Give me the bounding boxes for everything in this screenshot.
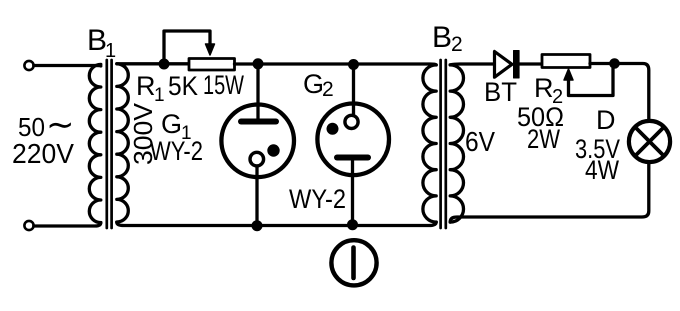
svg-text:G: G (161, 109, 182, 139)
meter lamp filament bar (351, 248, 356, 279)
wire: R2 to right corner and down to lamp (590, 64, 649, 120)
terminal top-left (24, 61, 33, 70)
tube G1 cathode dot (268, 145, 279, 156)
tube G2 envelope (317, 104, 389, 176)
arrowhead of R1 wiper (206, 44, 215, 55)
tube G1 cathode lead (255, 166, 258, 226)
svg-text:1: 1 (105, 40, 116, 62)
svg-text:WY-2: WY-2 (289, 184, 346, 214)
node junction G2 top (349, 60, 359, 70)
transformer B1 primary winding (89, 64, 101, 222)
lamp D envelope (629, 121, 670, 162)
arrowhead of R2 wiper (564, 69, 573, 80)
tube G2 dot electrode (327, 123, 338, 134)
wire: diode to R2 (519, 62, 542, 65)
node junction G1 bottom (252, 221, 262, 231)
tube G2 top lead (352, 64, 355, 115)
tube G1 cathode circle (250, 152, 264, 166)
tube G2 bottom bar (337, 155, 368, 161)
transformer B2 primary winding (423, 65, 436, 222)
resistor R2 body (542, 55, 590, 68)
svg-text:6V: 6V (465, 126, 495, 157)
transformer B2 core (441, 60, 446, 228)
node junction R1 left (159, 59, 169, 69)
svg-text:R: R (136, 71, 156, 101)
svg-text:4W: 4W (585, 155, 619, 185)
tube G2 bottom lead (351, 158, 354, 225)
transformer B1 core (107, 60, 112, 228)
svg-text:5K: 5K (168, 71, 198, 101)
wire: top-left terminal to B1 primary (34, 64, 101, 68)
svg-text:2: 2 (322, 78, 334, 101)
wire: top rail G1 to G2 to B2 (258, 64, 436, 65)
svg-text:BT: BT (484, 77, 517, 107)
svg-text:D: D (596, 105, 616, 135)
tube G1 envelope (221, 105, 294, 178)
terminal bottom-left (24, 221, 33, 230)
transformer B1 secondary winding 300V (117, 64, 129, 222)
svg-text:2W: 2W (527, 124, 560, 154)
tube G1 anode bar (241, 119, 276, 125)
tube G2 top electrode circle (345, 115, 358, 128)
svg-text:B: B (87, 24, 107, 57)
svg-text:2: 2 (451, 33, 463, 56)
svg-text:WY-2: WY-2 (150, 136, 203, 166)
wire: R2 wiper loop (569, 69, 614, 96)
diode BT triangle (495, 52, 513, 78)
tube G1 anode lead (256, 64, 259, 121)
svg-text:B: B (432, 21, 452, 54)
lamp D cross (635, 127, 663, 155)
diode BT cathode bar (514, 51, 520, 79)
wire: B1 secondary top to R1 (117, 62, 189, 66)
node junction R2 right (610, 59, 620, 69)
wire: B2 secondary top to diode (450, 62, 494, 66)
wire: bottom-left terminal to B1 primary (34, 223, 101, 227)
meter lamp below G2 (331, 240, 376, 285)
svg-text:G: G (303, 69, 324, 99)
svg-text:1: 1 (154, 85, 165, 106)
svg-text:15W: 15W (203, 70, 244, 100)
node junction G2 bottom (348, 220, 358, 230)
transformer B2 secondary winding (450, 65, 463, 222)
svg-text:220V: 220V (12, 138, 74, 169)
wire: middle bottom rail (117, 222, 436, 226)
resistor R1 body (189, 59, 235, 71)
wire: R1 to G1 top junction (235, 62, 259, 65)
svg-text:R: R (534, 73, 554, 103)
wire: lamp down and bottom-right rail to B2 (450, 163, 649, 223)
node junction G1 top (253, 59, 263, 69)
wire: R1 wiper loop (164, 31, 210, 64)
